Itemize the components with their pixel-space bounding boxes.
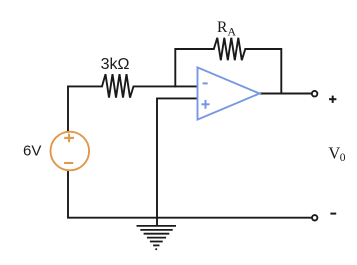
svg-text:0: 0 — [340, 152, 346, 164]
svg-text:R: R — [217, 19, 228, 36]
svg-text:V: V — [328, 143, 340, 162]
svg-text:6V: 6V — [23, 142, 41, 159]
svg-text:3kΩ: 3kΩ — [101, 56, 130, 73]
svg-text:A: A — [227, 25, 236, 39]
